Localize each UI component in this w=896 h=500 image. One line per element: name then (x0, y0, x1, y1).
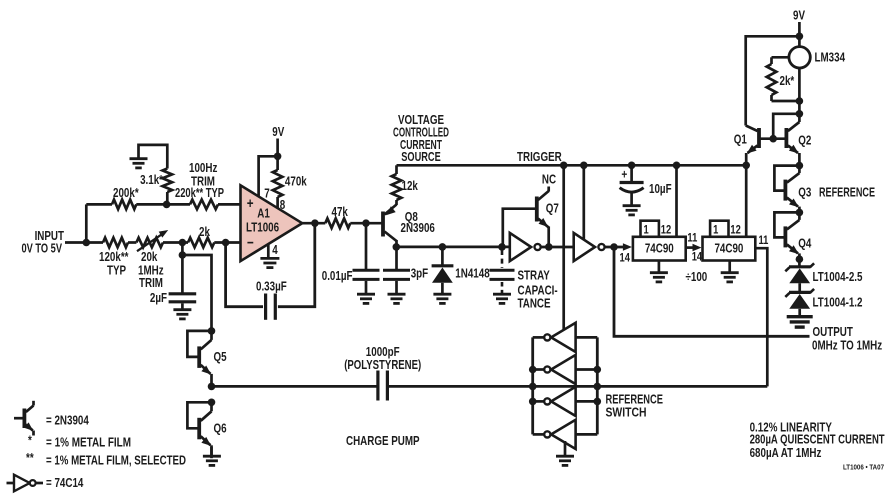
wire arrow into 74C90 pin 14 (623, 243, 632, 251)
capacitor 0.33uF (264, 294, 267, 320)
wire to op-amp + input (218, 203, 241, 206)
transistor Q1 (757, 128, 761, 148)
svg-text:200k*: 200k* (113, 187, 139, 200)
inverter U1d reference switch (551, 355, 576, 384)
node junction 0.01uF (362, 219, 370, 227)
svg-text:LM334: LM334 (815, 51, 846, 64)
node junction trigger/inv1 (560, 162, 568, 170)
svg-text:Q3: Q3 (798, 186, 811, 199)
svg-text:= 1% METAL FILM, SELECTED: = 1% METAL FILM, SELECTED (46, 454, 186, 467)
node junction trigger/74C90 (673, 162, 681, 170)
wire pin 11 down (755, 248, 767, 386)
svg-text:VOLTAGE: VOLTAGE (398, 114, 444, 127)
svg-text:11: 11 (687, 232, 697, 245)
resistor 3.1k* (166, 192, 169, 204)
wire node A down (181, 243, 184, 256)
resistor 120k** TYP (103, 238, 128, 248)
node junction charge pump (208, 383, 216, 391)
inverter U1a 74C14 (510, 233, 531, 261)
node junction feedback (222, 239, 230, 247)
svg-text:1MHz: 1MHz (138, 264, 164, 277)
svg-text:2k*: 2k* (780, 75, 795, 88)
wire trigger drop to reference switch (562, 165, 565, 331)
node junction 3.1k (163, 201, 171, 209)
svg-text:9V: 9V (793, 9, 805, 22)
svg-text:(POLYSTYRENE): (POLYSTYRENE) (344, 359, 421, 372)
resistor 47k (325, 218, 350, 228)
svg-text:+: + (247, 195, 254, 212)
wire pin 7 (259, 156, 278, 197)
pin 4 stub and label (267, 244, 270, 258)
svg-text:220k** TYP: 220k** TYP (175, 187, 224, 200)
svg-text:2N3906: 2N3906 (401, 222, 435, 235)
ground 3pF (388, 293, 406, 296)
resistor 200k* (112, 200, 136, 210)
wire (181, 303, 184, 308)
wire pin 12 to trigger (675, 165, 678, 237)
svg-text:12k: 12k (402, 180, 419, 193)
feedback loop wire right (278, 223, 315, 307)
svg-text:OUTPUT: OUTPUT (813, 326, 853, 339)
inverter U1c reference switch (551, 323, 576, 352)
node junction Q7 base / stray cap (498, 243, 506, 251)
wire Q7 base (503, 209, 537, 244)
transistor Q8 2N3906 (381, 212, 385, 237)
capacitor 1000pF polystyrene (376, 371, 379, 401)
svg-text:Q5: Q5 (214, 351, 227, 364)
svg-text:9V: 9V (272, 126, 284, 139)
inverter U1f reference switch (551, 420, 576, 449)
inverter U1e reference switch (551, 387, 576, 416)
wire Q1 Q2 base rail (759, 137, 786, 140)
wire (128, 241, 136, 244)
op-amp A1 LT1006 (241, 185, 303, 261)
diode 1N4148 (439, 243, 447, 251)
svg-text:SWITCH: SWITCH (606, 406, 647, 419)
counter U2 74C90 (641, 221, 659, 237)
resistor 12k (392, 174, 402, 200)
capacitor 10uF polarized (630, 165, 633, 181)
svg-text:INPUT: INPUT (35, 230, 65, 243)
svg-text:LT1006 • TA07: LT1006 • TA07 (843, 464, 884, 472)
node junction Q4 collector (796, 255, 804, 263)
svg-text:LT1006: LT1006 (246, 221, 279, 234)
current source LM334 (789, 47, 810, 68)
svg-text:÷100: ÷100 (686, 271, 708, 284)
wire upper branch (86, 203, 112, 206)
svg-text:TRIM: TRIM (139, 277, 163, 290)
svg-text:10µF: 10µF (649, 183, 672, 196)
svg-text:CAPACI-: CAPACI- (518, 284, 558, 297)
svg-text:STRAY: STRAY (518, 269, 551, 282)
ground op-amp pin 4 (260, 257, 279, 260)
potentiometer 20k 1MHz TRIM (136, 238, 163, 248)
feedback loop wire (226, 243, 263, 307)
svg-text:1: 1 (643, 224, 648, 237)
wire 2uF (181, 255, 184, 293)
node A junction (179, 239, 187, 247)
svg-text:Q2: Q2 (798, 134, 811, 147)
node junction trigger end Q1 (742, 162, 750, 170)
node junction inv2 output (610, 243, 618, 251)
svg-text:0V TO 5V: 0V TO 5V (22, 242, 63, 255)
wire op-amp output (302, 222, 325, 225)
wire U2 pin 11 to U3 pin 14 (686, 246, 696, 249)
svg-text:**: ** (26, 452, 34, 465)
svg-text:280µA QUIESCENT CURRENT: 280µA QUIESCENT CURRENT (750, 434, 885, 447)
wire inv1 to inv2 (541, 246, 574, 249)
ground stray capacitance (493, 293, 511, 296)
wire (136, 203, 190, 206)
svg-text:47k: 47k (332, 206, 349, 219)
svg-text:CONTROLLED: CONTROLLED (393, 126, 449, 139)
wire LM334 bottom (798, 68, 801, 114)
svg-text:SOURCE: SOURCE (401, 151, 441, 164)
node junction base feed (796, 110, 804, 118)
svg-text:1N4148: 1N4148 (455, 267, 489, 280)
wire (350, 222, 382, 225)
transistor Q3 (796, 162, 804, 170)
svg-text:Q7: Q7 (546, 202, 559, 215)
resistor 220k** 100Hz TRIM (190, 200, 218, 210)
ground reference switch (556, 455, 574, 458)
ground LT1004 (787, 315, 813, 318)
svg-text:0.01µF: 0.01µF (322, 270, 353, 283)
capacitor 2uF (169, 292, 197, 295)
wire 0.01uF cap (365, 223, 368, 269)
node junction 2uF/Q5 (179, 251, 187, 259)
wire TRIGGER rail (397, 164, 747, 167)
wire 9V (276, 139, 279, 171)
transistor Q6 (208, 399, 216, 407)
svg-text:REFERENCE: REFERENCE (606, 393, 664, 406)
svg-text:470k: 470k (285, 175, 307, 188)
wire (163, 241, 188, 244)
node junction Q7 collector (545, 243, 553, 251)
svg-text:A1: A1 (257, 207, 270, 220)
wire inv4 to ground (564, 441, 567, 455)
transistor Q4 (796, 209, 804, 217)
svg-text:= 2N3904: = 2N3904 (46, 414, 89, 427)
wire trigger drop to inv2 (582, 165, 585, 240)
node junctions rails (529, 366, 537, 374)
ground Q6 (203, 455, 221, 458)
svg-text:20k: 20k (141, 251, 158, 264)
wire pin 12 #2 to trigger (745, 165, 748, 237)
svg-text:3.1k*: 3.1k* (140, 174, 163, 187)
node junction 2k bottom (796, 97, 804, 105)
legend inverter 74C14 (7, 482, 15, 485)
wire charge pump line right (389, 385, 767, 388)
svg-text:14: 14 (620, 251, 630, 264)
transistor Q7 (535, 197, 539, 222)
wire right rail (596, 337, 599, 434)
svg-text:Q1: Q1 (734, 133, 747, 146)
resistor 2k (188, 238, 214, 248)
zener diode LT1004-1.2 (789, 291, 810, 294)
wire 2k node to Q5 (182, 255, 211, 331)
wire emitter to 12k (395, 200, 398, 205)
svg-text:TRIGGER: TRIGGER (517, 151, 562, 164)
svg-text:LT1004-2.5: LT1004-2.5 (813, 271, 863, 284)
svg-text:NC: NC (542, 173, 556, 186)
svg-text:100Hz: 100Hz (189, 162, 218, 175)
wire left rail (531, 337, 534, 434)
svg-text:REFERENCE: REFERENCE (819, 186, 875, 199)
node junction input (83, 239, 91, 247)
wire inv2 node down to output (614, 247, 810, 336)
svg-text:14: 14 (692, 250, 702, 263)
inverter U1b 74C14 (574, 233, 595, 261)
capacitor 0.01uF (353, 269, 380, 272)
wire 3.1k to ground bracket (139, 145, 168, 169)
svg-text:7: 7 (264, 187, 269, 200)
counter U3 74C90 (710, 221, 728, 237)
svg-text:TANCE: TANCE (518, 297, 551, 310)
svg-text:= 1% METAL FILM: = 1% METAL FILM (46, 436, 131, 449)
wire Q6 to ground (210, 447, 213, 455)
svg-text:680µA AT 1MHz: 680µA AT 1MHz (750, 447, 822, 460)
node junction trigger/inv2 (580, 162, 588, 170)
wire 9V to LM334 (798, 22, 801, 47)
node junction feedback/output (311, 219, 319, 227)
svg-text:2µF: 2µF (150, 292, 167, 305)
svg-text:+: + (621, 167, 627, 181)
ground input bias (130, 157, 148, 160)
node junction trigger/10uF (628, 162, 636, 170)
svg-text:2k: 2k (199, 226, 211, 239)
svg-text:120k**: 120k** (99, 251, 129, 264)
svg-text:*: * (28, 434, 32, 447)
svg-text:0MHz TO 1MHz: 0MHz TO 1MHz (812, 339, 882, 352)
wire 9V rail left to Q1 emitter (746, 36, 800, 125)
wire input line (65, 241, 103, 244)
node junction 9V/470k (274, 153, 282, 161)
svg-text:LT1004-1.2: LT1004-1.2 (813, 296, 863, 309)
svg-text:12: 12 (661, 224, 671, 237)
svg-text:11: 11 (759, 234, 769, 247)
legend transistor 2N3904 (22, 409, 26, 429)
wire base feed to Q1/Q2 bases (773, 114, 799, 139)
ground 74C90 #2 (728, 261, 731, 272)
wire signal line (397, 246, 511, 249)
wire inv2 out (605, 246, 626, 249)
zener diode LT1004-2.5 (789, 265, 810, 268)
svg-text:Q4: Q4 (798, 237, 812, 250)
transistor Q2 leads (788, 122, 800, 131)
wire to op-amp inverting input (214, 241, 240, 244)
svg-text:−: − (247, 234, 254, 251)
svg-text:8: 8 (280, 199, 285, 212)
ground 0.01uF (357, 293, 375, 296)
svg-text:4: 4 (272, 244, 278, 257)
capacitor 3pF (395, 247, 398, 269)
transistor Q2 (785, 128, 789, 148)
svg-text:0.33µF: 0.33µF (256, 280, 287, 293)
svg-text:= 74C14: = 74C14 (46, 477, 84, 490)
resistor 470k (273, 170, 283, 197)
svg-text:12: 12 (730, 224, 740, 237)
ground 1N4148 (433, 293, 451, 296)
svg-text:1000pF: 1000pF (366, 346, 400, 359)
node junction 9V rail (796, 33, 804, 41)
svg-text:74C90: 74C90 (645, 242, 674, 255)
svg-text:TYP: TYP (107, 264, 126, 277)
svg-text:1: 1 (713, 224, 718, 237)
resistor 2k* (772, 56, 789, 59)
ground 74C90 #1 (658, 261, 661, 272)
ground 2uF (173, 308, 191, 311)
svg-text:Q6: Q6 (214, 422, 227, 435)
stray capacitance dashed (501, 250, 504, 268)
wire branch up to 200k (85, 204, 88, 242)
transistor Q5 (208, 327, 216, 335)
ground 10uF (623, 204, 641, 207)
wire charge pump line left (212, 385, 377, 388)
svg-text:3pF: 3pF (411, 267, 429, 280)
node junction Q8/3pF (393, 243, 401, 251)
svg-text:74C90: 74C90 (714, 242, 743, 255)
svg-text:CHARGE PUMP: CHARGE PUMP (346, 435, 420, 448)
